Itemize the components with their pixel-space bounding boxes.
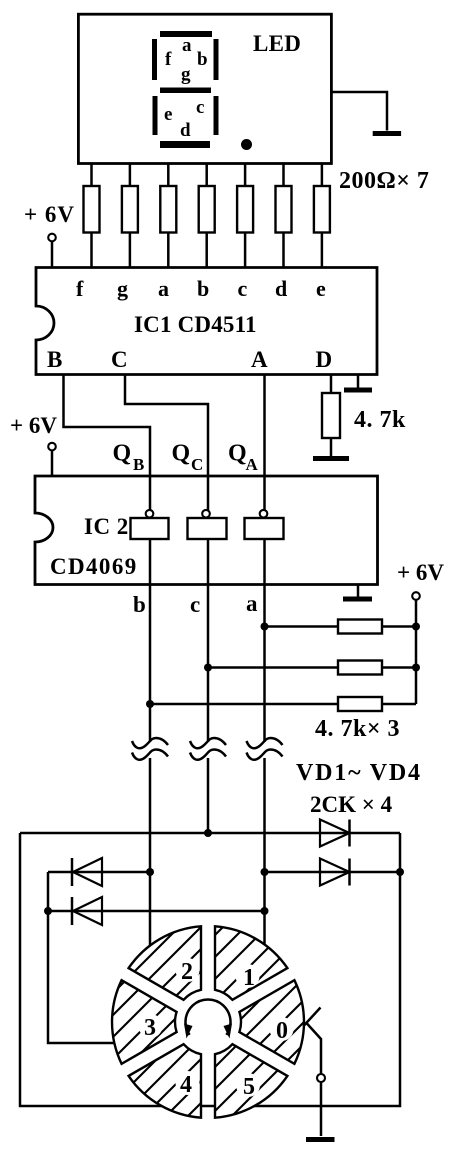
svg-text:4: 4 — [180, 1072, 192, 1098]
svg-text:A: A — [246, 455, 259, 474]
svg-text:f: f — [165, 49, 172, 70]
svg-text:Q: Q — [172, 441, 191, 467]
svg-text:0: 0 — [276, 1018, 288, 1044]
svg-text:VD1~ VD4: VD1~ VD4 — [296, 760, 422, 786]
svg-text:+ 6V: + 6V — [397, 560, 444, 585]
svg-text:a: a — [182, 35, 192, 56]
svg-text:B: B — [47, 347, 62, 372]
svg-text:b: b — [197, 276, 209, 301]
svg-text:b: b — [197, 49, 208, 70]
svg-text:LED: LED — [253, 31, 301, 56]
svg-text:+ 6V: + 6V — [10, 413, 57, 438]
svg-text:4. 7k× 3: 4. 7k× 3 — [315, 716, 400, 742]
svg-text:Q: Q — [228, 441, 247, 467]
svg-text:a: a — [158, 276, 169, 301]
svg-text:e: e — [164, 104, 172, 125]
svg-text:C: C — [191, 455, 203, 474]
svg-text:+ 6V: + 6V — [24, 202, 75, 227]
svg-text:D: D — [316, 347, 333, 372]
svg-text:B: B — [133, 455, 144, 474]
svg-text:c: c — [196, 97, 204, 118]
svg-text:3: 3 — [144, 1015, 156, 1041]
svg-text:2CK × 4: 2CK × 4 — [310, 792, 393, 817]
svg-text:4. 7k: 4. 7k — [354, 407, 406, 433]
svg-text:5: 5 — [243, 1074, 255, 1100]
svg-text:f: f — [76, 276, 84, 301]
svg-text:IC1 CD4511: IC1 CD4511 — [134, 312, 257, 337]
svg-text:d: d — [180, 120, 191, 141]
svg-text:c: c — [238, 276, 248, 301]
svg-text:IC 2: IC 2 — [84, 514, 129, 539]
svg-text:1: 1 — [243, 965, 255, 991]
svg-text:a: a — [246, 591, 258, 616]
svg-text:g: g — [181, 64, 191, 85]
svg-text:d: d — [275, 276, 287, 301]
svg-text:C: C — [111, 347, 128, 372]
svg-text:CD4069: CD4069 — [50, 554, 138, 579]
svg-text:2: 2 — [181, 959, 193, 985]
svg-text:A: A — [251, 347, 268, 372]
svg-text:c: c — [190, 592, 200, 617]
svg-text:b: b — [133, 592, 146, 617]
svg-text:e: e — [316, 276, 326, 301]
svg-text:Q: Q — [113, 441, 132, 467]
svg-text:200Ω× 7: 200Ω× 7 — [339, 168, 429, 194]
svg-text:g: g — [117, 276, 128, 301]
